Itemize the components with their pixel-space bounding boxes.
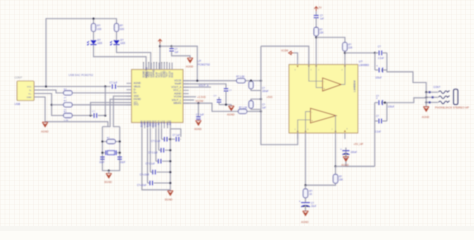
ground AGND (C16) xyxy=(196,121,202,126)
crystal cluster rails xyxy=(102,127,119,171)
wire LED2 to U1 pin (top) xyxy=(117,45,151,69)
capacitor C23 2.2uF xyxy=(375,120,378,122)
IC U2 LM4880 body xyxy=(289,65,358,134)
jack barrel xyxy=(454,89,458,104)
capacitor C17 (shunt top) xyxy=(250,80,252,83)
wire xtal bottom to DGND xyxy=(108,171,110,173)
svg-text:DGND: DGND xyxy=(104,180,112,184)
svg-text:DGD2: DGD2 xyxy=(153,120,155,127)
wire R8 to LED1 xyxy=(93,32,95,41)
node xtal bottom xyxy=(108,170,110,172)
wire VCC to U1 pin xyxy=(159,44,161,70)
wire R1 top stub xyxy=(93,19,95,24)
wire node up to VBUS row xyxy=(104,87,106,116)
capacitor C2 (row3) xyxy=(94,113,97,118)
svg-text:1uF: 1uF xyxy=(175,52,180,54)
U1 inside pin labels bottom (vertical) xyxy=(142,120,172,127)
svg-text:USB: USB xyxy=(15,102,21,106)
power net label VCOM xyxy=(183,99,194,101)
LED D2 xyxy=(110,39,125,46)
wire R2 to node xyxy=(247,110,261,112)
resistor R5 (D- series) xyxy=(64,91,73,95)
wire VCC branch to C3 xyxy=(160,45,172,47)
node VBUS junction xyxy=(45,85,47,87)
capacitor C1 (VBUS series) xyxy=(112,84,115,89)
ground DGND (xtal) xyxy=(106,173,112,178)
U1 left pin stubs xyxy=(127,83,132,105)
U2A inside wires xyxy=(309,65,323,82)
wire node to output caps B xyxy=(336,165,375,167)
capacitor C19 (bias) xyxy=(315,11,317,15)
power VCC (U2 bias top) xyxy=(314,7,318,12)
capacitor C24 10uF xyxy=(301,203,310,207)
wire U2B inverting chain xyxy=(305,139,307,185)
power VCC (U1 top) xyxy=(158,39,162,44)
net label VOUT_A xyxy=(183,86,211,88)
ground AGND (mid caps) xyxy=(229,106,235,111)
node C16 branch xyxy=(197,102,199,104)
wire row3 to U1 pin xyxy=(91,103,132,116)
svg-text:20K: 20K xyxy=(339,180,344,182)
crystal feed wire XTI xyxy=(113,96,131,127)
svg-text:5V: 5V xyxy=(319,6,322,9)
capacitor C7 0.1uF row2 xyxy=(158,128,160,150)
node row3 left xyxy=(89,114,91,116)
resistor R4 xyxy=(343,42,348,51)
wire jack common to AGND xyxy=(425,92,427,106)
svg-text:LED: LED xyxy=(120,42,125,45)
U1 inside pin labels left xyxy=(134,82,142,107)
node row3 right xyxy=(104,114,106,116)
wire R3 to U2 pin xyxy=(315,36,317,61)
wire caps B rail xyxy=(374,103,376,167)
svg-text:AGND: AGND xyxy=(422,115,430,119)
resistor R7 (pull-up) xyxy=(64,113,73,117)
crystal feed wire XTO xyxy=(102,99,131,126)
capacitor C20 2.2uF xyxy=(375,52,378,54)
wire caps B out to jack xyxy=(387,98,426,121)
svg-text:VC: VC xyxy=(161,120,163,124)
svg-text:22pF: 22pF xyxy=(99,162,105,164)
ground AGND (C25) xyxy=(343,157,349,162)
svg-text:XTO: XTO xyxy=(134,104,139,107)
U2 bottom pin stubs xyxy=(298,133,345,139)
wire R4 node to output caps A xyxy=(345,52,375,54)
wire main vertical node bus xyxy=(261,46,298,144)
resistor R9 (LED2 series) xyxy=(114,24,118,32)
wire R7 to node xyxy=(72,115,93,117)
svg-text:VDD: VDD xyxy=(145,120,147,125)
svg-text:2.2uF: 2.2uF xyxy=(375,132,381,134)
svg-text:AGND: AGND xyxy=(194,127,202,131)
svg-text:R? 1.6K: R? 1.6K xyxy=(239,107,248,109)
svg-text:AGX: AGX xyxy=(158,120,161,125)
wire row2 left stub xyxy=(52,104,64,106)
svg-text:DGD: DGD xyxy=(172,72,174,77)
wire LED1 to U1 pin (top) xyxy=(94,45,147,69)
svg-text:PHONEJACK STEREO HP: PHONEJACK STEREO HP xyxy=(435,105,469,109)
svg-text:C?+10uF: C?+10uF xyxy=(137,185,147,187)
wire bus top to U2 input xyxy=(261,46,309,64)
svg-text:-: - xyxy=(311,110,312,114)
capacitor C6 0.1uF row1 xyxy=(161,128,163,139)
U1 inside pin labels top (vertical) xyxy=(143,69,174,77)
capacitor C9 10uF row4 xyxy=(149,128,151,172)
U2 pin numbers xyxy=(295,70,349,132)
node VBUS-R1 junction xyxy=(92,18,94,20)
jack spring contacts xyxy=(439,91,450,104)
resistor R2 1.6K xyxy=(238,109,247,113)
node pin1-vcc xyxy=(196,80,198,82)
svg-text:AGD: AGD xyxy=(169,120,172,125)
node VCC branch xyxy=(159,45,161,47)
U1 inside pin labels right xyxy=(171,80,182,106)
ground AGND (C24) xyxy=(303,211,309,216)
capacitor C15 xyxy=(218,97,220,100)
U1 bottom pin stubs xyxy=(142,123,170,129)
svg-text:AGND: AGND xyxy=(186,64,194,68)
svg-text:+5V_HP: +5V_HP xyxy=(354,142,364,146)
LED D1 xyxy=(87,39,102,46)
wire bias branch xyxy=(316,37,345,42)
wire cluster A out to jack xyxy=(387,53,426,92)
wire R9 to LED2 xyxy=(116,32,118,41)
capacitor C14 xyxy=(224,89,228,91)
jack pin rows xyxy=(426,91,438,93)
resistor R6 (D+ series) xyxy=(64,103,73,107)
wire C2 to node xyxy=(98,115,105,117)
ground DGND (ladder) xyxy=(168,191,174,196)
svg-text:AGND: AGND xyxy=(301,220,309,224)
svg-text:100uF: 100uF xyxy=(388,106,395,108)
svg-text:C?+10uF: C?+10uF xyxy=(140,174,150,176)
svg-text:AGND: AGND xyxy=(41,130,49,134)
capacitor C18 (shunt bottom) xyxy=(251,99,261,101)
svg-text:LM4880: LM4880 xyxy=(359,63,370,67)
U2B inside wires xyxy=(298,120,311,133)
svg-text:22K: 22K xyxy=(320,33,325,35)
resistor R1 1.6K xyxy=(237,79,246,83)
capacitor C8 0.1uF row3 xyxy=(155,128,157,161)
svg-text:PCM2702: PCM2702 xyxy=(146,66,149,78)
wire caps common to AGND xyxy=(219,104,231,106)
capacitor C25 (bypass) xyxy=(342,151,349,155)
wire USB D+ branch xyxy=(39,94,64,116)
svg-text:DGND: DGND xyxy=(147,120,149,127)
svg-text:VCCX: VCCX xyxy=(156,120,158,127)
resistor R10 (xtal feedback) xyxy=(102,141,106,143)
svg-text:R? 1.6K: R? 1.6K xyxy=(236,77,245,79)
svg-text:AGND: AGND xyxy=(227,113,235,117)
svg-text:VCOM: VCOM xyxy=(281,50,288,53)
svg-text:100uF: 100uF xyxy=(262,91,269,93)
svg-text:D-: D- xyxy=(29,90,32,92)
wire VBUS row xyxy=(39,86,111,88)
svg-text:DGND: DGND xyxy=(165,197,173,201)
bottom decoupling ladder: drop 1 xyxy=(142,128,170,190)
wire USB GND down xyxy=(39,97,108,127)
svg-text:-: - xyxy=(324,79,325,83)
svg-text:LED: LED xyxy=(97,42,102,45)
svg-text:CON?: CON? xyxy=(15,76,23,80)
svg-text:PLAY: PLAY xyxy=(155,71,158,77)
svg-text:LM4880M: LM4880M xyxy=(352,80,356,92)
capacitor C10 10uF row5 xyxy=(147,128,149,183)
power net label +3.3VD xyxy=(183,96,196,98)
capacitor C21 100uF xyxy=(374,53,376,70)
power cluster bottom right xyxy=(346,148,375,167)
wire rail to DGND xyxy=(169,189,171,192)
svg-text:CON?: CON? xyxy=(433,86,441,89)
U2 pin arrows xyxy=(297,66,346,133)
svg-text:+3.3VD: +3.3VD xyxy=(197,95,206,99)
crystal X1 xyxy=(101,150,120,155)
svg-text:+5V0: +5V0 xyxy=(267,96,274,99)
wire U2B output down xyxy=(335,139,337,166)
wire R5 to U1 xyxy=(72,92,131,94)
wire C19 to R3 xyxy=(315,18,317,28)
wire R6 to U1 xyxy=(72,104,131,106)
wire VCC branch to U1 right pin1 xyxy=(172,46,198,80)
svg-text:C? 1uF: C? 1uF xyxy=(196,113,204,116)
svg-text:PCM2702: PCM2702 xyxy=(198,63,211,67)
U1 top pin stubs xyxy=(144,63,173,70)
svg-text:AG: AG xyxy=(163,120,166,124)
op-amp U2B triangle xyxy=(310,108,336,123)
resistor R8 (LED1 series) xyxy=(91,24,95,32)
svg-text:R?: R? xyxy=(97,24,101,28)
svg-text:AGND: AGND xyxy=(341,163,349,167)
IC U1 PCM2702 body xyxy=(132,70,184,123)
svg-text:100uF: 100uF xyxy=(375,78,382,80)
svg-text:10uF: 10uF xyxy=(311,206,317,208)
capacitor C12 22pF (right rail) xyxy=(118,157,122,159)
ground AGND (USB) xyxy=(42,122,48,127)
svg-text:22K: 22K xyxy=(348,48,353,50)
svg-text:1uF: 1uF xyxy=(262,108,267,110)
wire USB D- to R5 xyxy=(39,90,64,93)
wire VBUS top loop xyxy=(46,19,117,87)
output cap cluster A xyxy=(374,52,376,54)
resistor R12 (load) xyxy=(333,174,338,183)
svg-text:C? 1uF: C? 1uF xyxy=(110,82,118,85)
svg-text:MBIAS: MBIAS xyxy=(174,102,182,105)
svg-text:VDD2: VDD2 xyxy=(150,120,152,127)
ground AGND (jack) xyxy=(423,107,429,112)
svg-text:VCOM: VCOM xyxy=(196,99,204,103)
ladder rail xyxy=(169,128,171,190)
wire R4 to U2 pin4 xyxy=(344,51,346,61)
resistor R11 xyxy=(303,189,308,198)
wire R1 to node xyxy=(246,80,261,82)
svg-text:C? 0.1uF: C? 0.1uF xyxy=(148,152,158,154)
svg-text:C? 1uF: C? 1uF xyxy=(173,135,181,137)
svg-text:C? 0.1uF: C? 0.1uF xyxy=(151,141,161,143)
capacitor C3 (VCC decouple) xyxy=(171,46,173,48)
power port VCOM (U2 pin1 left) xyxy=(294,53,298,61)
svg-text:2.2uF: 2.2uF xyxy=(378,58,384,60)
node C3 top xyxy=(171,45,173,47)
svg-text:DGND: DGND xyxy=(142,120,144,127)
connector J1 phone jack xyxy=(425,86,469,109)
svg-text:VCC: VCC xyxy=(167,120,169,125)
svg-text:22pF: 22pF xyxy=(120,162,126,164)
wire branch to C14 xyxy=(183,84,226,89)
capacitor C16 xyxy=(197,103,199,116)
capacitor C11 22pF (left rail) xyxy=(100,157,104,159)
ground AGND (C3) xyxy=(187,58,193,63)
capacitor C22 100uF xyxy=(375,102,378,104)
svg-text:VCC: VCC xyxy=(27,86,32,88)
wire C14 down xyxy=(225,91,227,105)
resistor R3 (bias divider) xyxy=(314,27,319,36)
op-amp U2A triangle xyxy=(323,78,342,91)
svg-text:VOUT_A: VOUT_A xyxy=(199,84,209,87)
wire C3 to AGND xyxy=(172,51,191,58)
svg-text:220: 220 xyxy=(120,27,125,31)
svg-text:GND: GND xyxy=(27,97,32,99)
svg-text:C? 0.1uF: C? 0.1uF xyxy=(145,163,155,165)
svg-text:1K: 1K xyxy=(309,194,312,196)
wire U1 VOUT_L row xyxy=(183,103,238,111)
wire U1 VOUT_R row xyxy=(183,80,236,82)
svg-text:220: 220 xyxy=(97,27,102,31)
node VBUS-cap junction xyxy=(104,85,106,87)
svg-text:USB DAC PCM2702: USB DAC PCM2702 xyxy=(69,73,94,77)
capacitor C5 0.1uF right loop xyxy=(170,129,181,137)
U2 top pin stubs xyxy=(298,61,345,65)
svg-text:1uF: 1uF xyxy=(320,18,325,20)
node D+ row2 junction xyxy=(51,104,53,106)
svg-text:R?: R? xyxy=(120,24,124,28)
U1 right pin stubs xyxy=(183,81,189,104)
connector CON1 USB xyxy=(15,76,39,106)
svg-text:100uF: 100uF xyxy=(351,152,358,154)
wire cap C1 to U1 xyxy=(117,86,132,88)
